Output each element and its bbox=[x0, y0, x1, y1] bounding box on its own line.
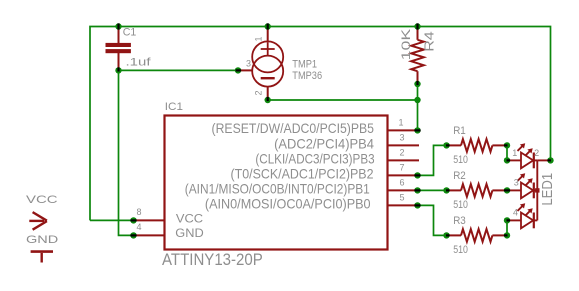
svg-text:4: 4 bbox=[513, 208, 518, 218]
svg-text:4: 4 bbox=[136, 222, 141, 232]
svg-text:510: 510 bbox=[453, 244, 468, 256]
svg-text:5: 5 bbox=[399, 193, 404, 203]
svg-text:R1: R1 bbox=[453, 125, 466, 137]
svg-text:VCC: VCC bbox=[176, 212, 204, 226]
svg-text:3: 3 bbox=[246, 59, 251, 69]
svg-text:R3: R3 bbox=[453, 215, 466, 227]
svg-text:2: 2 bbox=[534, 148, 539, 158]
svg-text:(CLKI/ADC3/PCI3)PB3: (CLKI/ADC3/PCI3)PB3 bbox=[255, 150, 374, 166]
svg-text:8: 8 bbox=[136, 207, 141, 217]
svg-text:GND: GND bbox=[26, 234, 58, 246]
svg-text:TMP1: TMP1 bbox=[292, 59, 317, 71]
svg-text:510: 510 bbox=[453, 154, 468, 166]
svg-text:6: 6 bbox=[399, 178, 404, 188]
svg-text:(RESET/DW/ADC0/PCI5)PB5: (RESET/DW/ADC0/PCI5)PB5 bbox=[212, 120, 375, 136]
svg-text:1: 1 bbox=[512, 148, 517, 158]
svg-text:(T0/SCK/ADC1/PCI2)PB2: (T0/SCK/ADC1/PCI2)PB2 bbox=[231, 165, 374, 181]
svg-text:7: 7 bbox=[399, 163, 404, 173]
svg-text:1: 1 bbox=[254, 36, 264, 41]
svg-text:VCC: VCC bbox=[26, 194, 58, 206]
svg-text:2: 2 bbox=[254, 90, 264, 95]
svg-text:R2: R2 bbox=[453, 170, 466, 182]
svg-text:3: 3 bbox=[514, 178, 519, 188]
svg-text:1: 1 bbox=[398, 118, 403, 128]
svg-text:GND: GND bbox=[175, 226, 204, 240]
svg-text:10K: 10K bbox=[399, 29, 413, 61]
svg-text:ATTINY13-20P: ATTINY13-20P bbox=[162, 250, 263, 269]
svg-text:R4: R4 bbox=[422, 31, 437, 52]
svg-text:510: 510 bbox=[453, 199, 468, 211]
svg-text:TMP36: TMP36 bbox=[292, 70, 322, 82]
svg-text:C1: C1 bbox=[123, 26, 137, 38]
svg-text:LED1: LED1 bbox=[539, 173, 556, 206]
svg-text:.1uf: .1uf bbox=[126, 56, 152, 68]
svg-text:2: 2 bbox=[399, 148, 404, 158]
svg-text:(AIN1/MISO/OC0B/INT0/PCI2)PB1: (AIN1/MISO/OC0B/INT0/PCI2)PB1 bbox=[185, 180, 370, 196]
svg-text:(AIN0/MOSI/OC0A/PCI0)PB0: (AIN0/MOSI/OC0A/PCI0)PB0 bbox=[205, 195, 371, 211]
svg-text:3: 3 bbox=[399, 133, 404, 143]
svg-text:(ADC2/PCI4)PB4: (ADC2/PCI4)PB4 bbox=[274, 135, 374, 151]
svg-text:IC1: IC1 bbox=[165, 101, 183, 113]
